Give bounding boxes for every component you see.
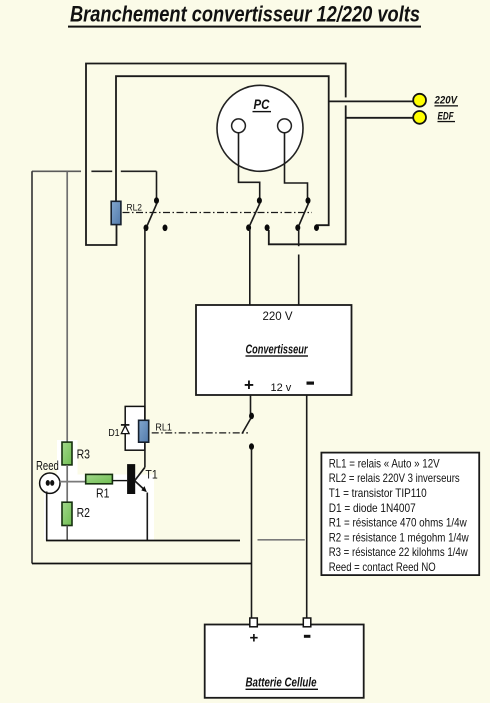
wire PC left pin to RL2 contact 2 xyxy=(239,133,260,198)
svg-text:T1: T1 xyxy=(145,468,158,482)
RL2 switch 1 xyxy=(144,197,168,231)
RL2 switch 3 xyxy=(295,197,319,231)
wire to EDF lamp xyxy=(346,117,413,119)
node rail from RL2 contact1 common: top horizontal xyxy=(32,170,81,172)
RL2 switch 2 xyxy=(246,197,270,231)
contact Reed xyxy=(36,458,60,494)
wire to 220V lamp xyxy=(329,100,413,102)
batterie box xyxy=(205,618,364,698)
svg-text:RL2: RL2 xyxy=(127,202,143,213)
svg-text:RL1 = relais « Auto » 12V: RL1 = relais « Auto » 12V xyxy=(329,456,440,470)
wire rail to switch1 common xyxy=(156,171,158,198)
wire R3 to node junction xyxy=(66,465,68,502)
transistor T1 xyxy=(127,464,158,494)
svg-text:Batterie Cellule: Batterie Cellule xyxy=(246,676,317,690)
white panel behind R3 column xyxy=(57,440,78,476)
wire RL1 contact to battery + xyxy=(251,449,253,621)
title: Branchement convertisseur 12/220 volts xyxy=(68,1,421,27)
svg-text:R1 = résistance 470 ohms 1/4w: R1 = résistance 470 ohms 1/4w xyxy=(329,516,467,530)
svg-text:T1 = transistor TIP110: T1 = transistor TIP110 xyxy=(329,486,427,500)
D1 flyback loop xyxy=(125,406,145,450)
convertisseur box xyxy=(196,305,352,395)
svg-text:Reed: Reed xyxy=(36,458,59,473)
svg-text:220V: 220V xyxy=(434,95,459,107)
svg-text:D1: D1 xyxy=(108,428,120,439)
svg-text:12 v: 12 v xyxy=(271,382,292,394)
wire RL1 coil to T1 collector xyxy=(144,442,146,467)
white panel behind transistor base circuit xyxy=(44,475,154,540)
wire convertisseur + to RL1 contact xyxy=(250,395,252,414)
svg-text:Branchement convertisseur 12/2: Branchement convertisseur 12/220 volts xyxy=(70,1,420,26)
svg-text:R1: R1 xyxy=(96,487,109,501)
wire switch2 NC down to convertisseur 220V left xyxy=(249,229,251,305)
crossing gap on outer loop at 220V wire xyxy=(344,97,347,105)
wire switch1 NC down to RL1 xyxy=(144,229,146,420)
RL1 linkage dash-dot xyxy=(152,432,248,434)
svg-text:RL1: RL1 xyxy=(155,422,172,433)
wire R2 to bottom rail xyxy=(66,526,68,541)
relay RL1 contact xyxy=(242,413,254,450)
wire left rail down to lower rail xyxy=(31,171,33,563)
legend box xyxy=(321,453,479,575)
wire convertisseur - to battery - xyxy=(306,395,308,619)
wire Reed bottom down xyxy=(46,492,48,541)
wire gray jumper 12v minus xyxy=(258,539,305,541)
wire bottom rail (emitter rail) xyxy=(46,540,240,542)
svg-text:+: + xyxy=(244,376,254,395)
lamp EDF xyxy=(413,110,455,124)
wire T1 emitter down xyxy=(146,493,148,541)
svg-text:PC: PC xyxy=(254,96,271,112)
wire inner 220V loop xyxy=(116,76,329,227)
wire switch3 NC down to convertisseur 220V right xyxy=(298,229,300,246)
svg-text:220 V: 220 V xyxy=(263,311,293,323)
resistor R3 xyxy=(62,442,90,465)
svg-text:RL2 = relais 220V 3 inverseurs: RL2 = relais 220V 3 inverseurs xyxy=(329,471,460,485)
wire PC right pin to RL2 contact 3 xyxy=(285,133,308,198)
PC socket xyxy=(217,85,303,171)
wire R1 to T1 base xyxy=(112,480,127,482)
wire lower rail to battery + xyxy=(32,563,252,565)
relay RL1 coil xyxy=(139,420,173,442)
svg-text:R3 = résistance 22 kilohms 1/4: R3 = résistance 22 kilohms 1/4w xyxy=(329,545,468,559)
wire outer EDF loop xyxy=(86,64,346,246)
svg-text:Convertisseur: Convertisseur xyxy=(246,343,309,357)
lamp 220V xyxy=(413,94,458,107)
svg-text:R3: R3 xyxy=(77,448,90,462)
svg-text:Reed = contact Reed NO: Reed = contact Reed NO xyxy=(329,560,436,574)
wire gray rail down to R3 xyxy=(66,172,68,442)
svg-text:EDF: EDF xyxy=(438,110,454,122)
relay RL2 coil xyxy=(111,201,142,224)
resistor R2 xyxy=(62,502,90,525)
wire Reed to R1 gray xyxy=(60,481,86,483)
svg-text:R2 = résistance 1 mégohm 1/4w: R2 = résistance 1 mégohm 1/4w xyxy=(329,530,469,544)
svg-text:+: + xyxy=(250,629,259,646)
svg-text:R2: R2 xyxy=(77,506,90,520)
RL2 linkage dash-dot xyxy=(123,212,313,214)
svg-text:D1 = diode 1N4007: D1 = diode 1N4007 xyxy=(329,501,416,515)
diode D1 xyxy=(108,425,129,439)
resistor R1 xyxy=(86,474,113,500)
